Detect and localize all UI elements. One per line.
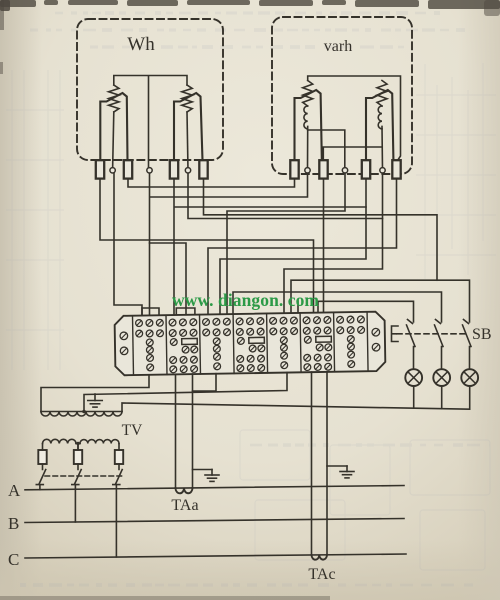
terminal block section 3 screws: [203, 318, 231, 370]
Wh internal voltage bus wire: [114, 76, 187, 171]
svg-text:TAc: TAc: [308, 566, 335, 583]
Wh element 2 current coil: [174, 93, 203, 170]
jumper bridge sections 1-2: [142, 308, 159, 316]
ground at TV secondary tap: [94, 394, 96, 401]
terminal block section 7 screws: [337, 316, 365, 368]
varh element 1 voltage coil (zigzag + loops): [303, 81, 313, 107]
test terminal block outline: [115, 312, 386, 376]
terminal block section dividers: [132, 316, 135, 375]
TV primary middle tap: [76, 444, 80, 451]
terminal block section 4 screws: [236, 318, 265, 372]
ground at TAa: [193, 469, 213, 471]
TV primary winding a: [43, 439, 77, 443]
varh element 2 current coil: [366, 90, 394, 170]
TV primary fuses: [38, 450, 46, 464]
switch linkage (dashed): [45, 475, 122, 477]
energy meter Wh dashed enclosure: [77, 19, 223, 160]
wire varh coil2 to terminal 6, cross branch to terminal 3: [323, 126, 382, 170]
phase A busbar: [25, 486, 404, 490]
SB operator bracket: [392, 326, 399, 342]
svg-text:TAa: TAa: [171, 497, 198, 514]
wire Wh T6 to varh T6: [188, 170, 383, 219]
terminal block section 6 screws: [303, 317, 332, 371]
wire block to TV secondary left end: [41, 375, 149, 412]
wire block to SB pole 2: [233, 292, 442, 322]
jumper bridge above TAa terminals: [176, 308, 195, 315]
terminal block end screws: [120, 332, 128, 340]
varh element 2 voltage coil (zigzag + loops): [377, 81, 387, 107]
svg-text:varh: varh: [324, 38, 352, 55]
svg-text:Wh: Wh: [127, 34, 155, 55]
wire varh T3 down to block: [323, 170, 325, 313]
CT TAa secondary wires: [176, 374, 193, 488]
varh internal voltage bus wire: [308, 76, 401, 161]
svg-text:B: B: [8, 514, 19, 533]
ground at TAc: [327, 465, 347, 467]
wire Wh T1 to block: [100, 170, 314, 313]
wire block to SB pole 1: [298, 301, 414, 322]
Wh element 1 current coil: [100, 93, 127, 170]
wire varh T4 down to block: [227, 170, 345, 314]
terminal block section 1 screws: [136, 319, 164, 371]
svg-text:www. diangon. com: www. diangon. com: [172, 290, 319, 310]
link wire T4 riser to block: [150, 243, 187, 315]
wire Wh T3 to varh T1: [128, 170, 295, 187]
wire varh T7 down to block: [208, 170, 397, 314]
phase C busbar: [25, 554, 406, 558]
wire Wh T7 to SB feed junction: [204, 170, 438, 280]
wire block to SB pole 3: [291, 280, 470, 322]
svg-text:TV: TV: [122, 422, 143, 439]
neutral wire TV to signal lamps: [122, 403, 470, 412]
wire block jog to TAa wire: [193, 374, 217, 391]
wire varh T5 down to block: [220, 170, 366, 314]
SB switch poles: [407, 320, 416, 370]
CT TAa winding on phase A: [176, 488, 193, 493]
svg-text:C: C: [8, 550, 19, 569]
TV primary winding b: [80, 440, 119, 444]
terminal block section 2 screws: [169, 319, 198, 373]
varh element 1 current coil: [295, 90, 323, 170]
wire zigzag1 to terminal 2: [113, 112, 114, 170]
Wh element 1 voltage coil (zigzag): [109, 85, 119, 112]
wire Wh T2 to block: [114, 170, 142, 316]
phase B busbar: [25, 519, 404, 523]
wire Wh T4 to varh T2, straight down to block: [150, 170, 308, 315]
wire TV earth tap to block: [84, 373, 287, 412]
signal lamps: [405, 369, 422, 386]
svg-text:SB: SB: [472, 326, 492, 343]
varh terminal row: [290, 160, 298, 178]
TV primary isolating switch blades: [36, 470, 45, 490]
wire varh coil1 to terminal 2, branch to terminal 4: [308, 126, 345, 170]
junction dot TV tap: [82, 410, 86, 414]
Wh element 2 voltage coil (zigzag): [182, 85, 192, 112]
wire Wh T5 to varh T5, straight down to block: [174, 170, 366, 315]
SB linkage dashed: [397, 333, 466, 335]
wire zigzag2 to terminal 6: [187, 112, 188, 170]
reactive meter varh dashed enclosure: [272, 17, 412, 174]
CT TAc winding on phase C: [312, 555, 328, 560]
CT TAc secondary wires: [312, 372, 328, 555]
terminal block section 5 screws: [270, 317, 298, 369]
wire varh T6 down to block: [284, 170, 383, 313]
Wh terminal row: [96, 160, 104, 178]
svg-text:A: A: [8, 481, 21, 500]
TV secondary winding: [41, 411, 122, 413]
